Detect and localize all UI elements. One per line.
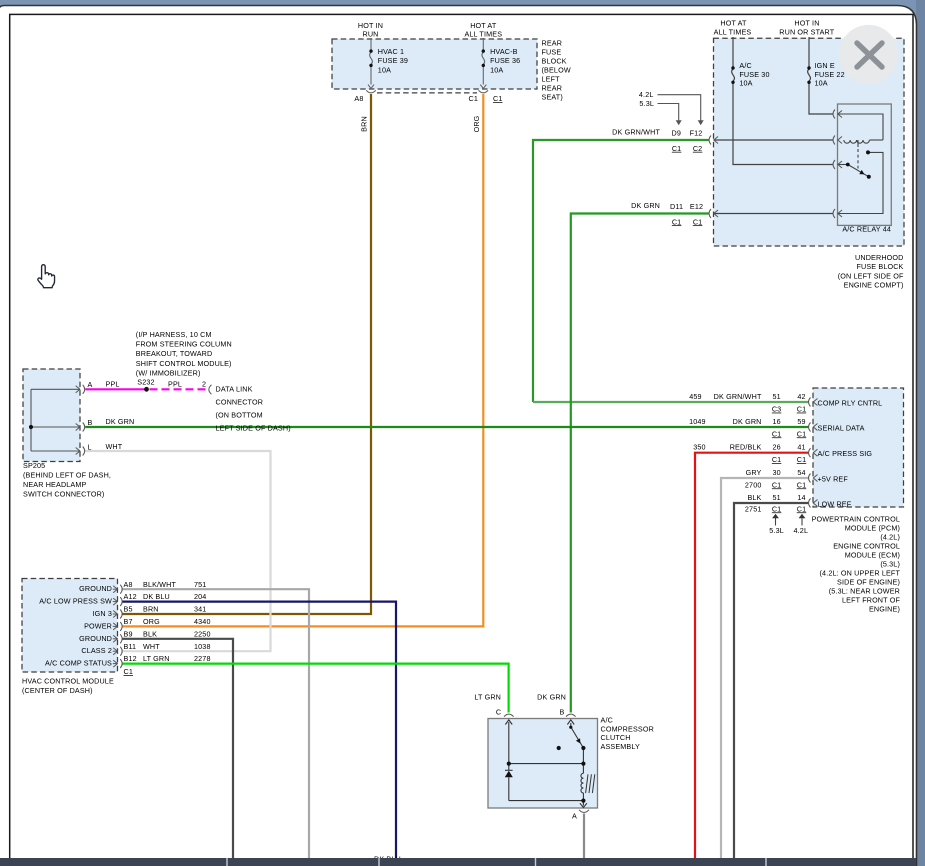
svg-text:HVAC CONTROL MODULE: HVAC CONTROL MODULE [22, 677, 114, 686]
svg-text:D11: D11 [670, 202, 683, 211]
svg-text:F12: F12 [690, 128, 703, 137]
svg-text:PPL: PPL [106, 380, 120, 389]
svg-text:54: 54 [797, 468, 805, 477]
svg-text:FUSE 22: FUSE 22 [815, 70, 845, 79]
svg-text:A8: A8 [124, 580, 133, 589]
svg-text:C1: C1 [772, 455, 782, 464]
svg-text:BRN: BRN [143, 605, 159, 614]
svg-text:30: 30 [772, 468, 780, 477]
svg-text:DK GRN: DK GRN [733, 417, 762, 426]
svg-text:E12: E12 [690, 202, 703, 211]
svg-text:C1: C1 [772, 429, 782, 438]
svg-text:IGN 3: IGN 3 [92, 609, 112, 618]
svg-text:(4.2L: ON UPPER LEFT: (4.2L: ON UPPER LEFT [820, 569, 901, 578]
svg-text:DK BLU: DK BLU [143, 592, 170, 601]
svg-text:2700: 2700 [745, 480, 762, 489]
svg-text:(W/ IMMOBILIZER): (W/ IMMOBILIZER) [136, 368, 201, 377]
svg-text:L: L [88, 443, 92, 452]
svg-text:C1: C1 [797, 480, 807, 489]
svg-text:REAR: REAR [542, 38, 563, 47]
svg-text:IGN E: IGN E [815, 61, 835, 70]
svg-text:A/C RELAY 44: A/C RELAY 44 [842, 225, 891, 234]
svg-text:POWER: POWER [84, 621, 112, 630]
svg-text:REAR: REAR [542, 83, 563, 92]
svg-text:C2: C2 [693, 144, 703, 153]
svg-text:LEFT: LEFT [542, 74, 561, 83]
svg-text:DK GRN: DK GRN [106, 417, 135, 426]
svg-text:NEAR HEADLAMP: NEAR HEADLAMP [23, 480, 87, 489]
svg-text:DK GRN: DK GRN [537, 693, 566, 702]
svg-text:ENGINE COMPT): ENGINE COMPT) [844, 281, 904, 290]
svg-text:A8: A8 [354, 94, 363, 103]
svg-text:C1: C1 [493, 94, 503, 103]
svg-text:FUSE 36: FUSE 36 [490, 56, 520, 65]
svg-text:2250: 2250 [194, 629, 211, 638]
svg-text:SHIFT CONTROL MODULE): SHIFT CONTROL MODULE) [136, 359, 232, 368]
svg-text:51: 51 [772, 493, 780, 502]
svg-text:(ON LEFT SIDE OF: (ON LEFT SIDE OF [838, 271, 904, 280]
svg-text:C1: C1 [772, 480, 782, 489]
svg-text:SIDE OF ENGINE): SIDE OF ENGINE) [837, 578, 900, 587]
svg-text:BREAKOUT, TOWARD: BREAKOUT, TOWARD [136, 349, 213, 358]
svg-text:26: 26 [772, 443, 780, 452]
svg-text:A/C PRESS SIG: A/C PRESS SIG [818, 449, 873, 458]
svg-text:DK GRN/WHT: DK GRN/WHT [612, 128, 660, 137]
svg-text:DK GRN/WHT: DK GRN/WHT [714, 392, 762, 401]
svg-text:DK GRN: DK GRN [631, 201, 660, 210]
svg-text:B12: B12 [124, 654, 137, 663]
svg-text:CONNECTOR: CONNECTOR [216, 398, 264, 407]
svg-text:(5.3L): (5.3L) [880, 560, 900, 569]
svg-text:10A: 10A [815, 79, 828, 88]
svg-text:C1: C1 [797, 455, 807, 464]
svg-text:LEFT SIDE OF DASH): LEFT SIDE OF DASH) [216, 424, 291, 433]
svg-text:FUSE: FUSE [542, 47, 562, 56]
svg-text:LT GRN: LT GRN [474, 693, 501, 702]
svg-text:(BELOW: (BELOW [542, 65, 571, 74]
svg-text:5.3L: 5.3L [639, 99, 654, 108]
svg-text:PPL: PPL [168, 380, 182, 389]
svg-text:BRN: BRN [360, 116, 369, 132]
svg-text:10A: 10A [490, 65, 503, 74]
svg-text:59: 59 [797, 417, 805, 426]
svg-text:CLASS 2: CLASS 2 [81, 646, 112, 655]
svg-text:16: 16 [772, 417, 780, 426]
svg-text:DATA LINK: DATA LINK [216, 385, 253, 394]
svg-text:BLK: BLK [747, 493, 761, 502]
svg-text:RED/BLK: RED/BLK [730, 443, 762, 452]
svg-text:204: 204 [194, 592, 206, 601]
svg-text:RUN: RUN [362, 30, 378, 39]
svg-text:+5V REF: +5V REF [818, 474, 849, 483]
svg-text:459: 459 [689, 392, 701, 401]
svg-text:A/C LOW PRESS SW: A/C LOW PRESS SW [39, 597, 112, 606]
svg-text:HOT AT: HOT AT [470, 21, 497, 30]
svg-text:HVAC-B: HVAC-B [490, 47, 518, 56]
svg-text:A/C: A/C [601, 716, 613, 725]
svg-text:C1: C1 [797, 504, 807, 513]
svg-text:C: C [496, 708, 501, 717]
svg-text:14: 14 [797, 493, 805, 502]
svg-text:WHT: WHT [143, 642, 160, 651]
svg-text:ENGINE CONTROL: ENGINE CONTROL [833, 541, 900, 550]
svg-text:ENGINE): ENGINE) [869, 605, 900, 614]
svg-text:LT GRN: LT GRN [143, 654, 170, 663]
svg-text:C1: C1 [772, 504, 782, 513]
svg-text:ORG: ORG [143, 617, 160, 626]
svg-text:C3: C3 [772, 405, 782, 414]
svg-text:HVAC 1: HVAC 1 [378, 47, 404, 56]
svg-text:MODULE (ECM): MODULE (ECM) [845, 551, 900, 560]
svg-text:HOT IN: HOT IN [794, 18, 819, 27]
svg-text:(4.2L): (4.2L) [880, 532, 900, 541]
svg-text:GROUND: GROUND [79, 634, 112, 643]
svg-text:1038: 1038 [194, 642, 211, 651]
svg-text:ALL TIMES: ALL TIMES [714, 28, 752, 37]
svg-text:C1: C1 [672, 144, 682, 153]
svg-text:LOW REF: LOW REF [818, 499, 852, 508]
svg-text:CLUTCH: CLUTCH [601, 733, 631, 742]
svg-text:D9: D9 [672, 128, 682, 137]
svg-text:(I/P HARNESS, 10 CM: (I/P HARNESS, 10 CM [136, 330, 212, 339]
svg-text:A/C COMP STATUS: A/C COMP STATUS [45, 659, 112, 668]
svg-text:10A: 10A [378, 65, 391, 74]
svg-text:751: 751 [194, 580, 206, 589]
svg-text:2751: 2751 [745, 504, 762, 513]
svg-text:4340: 4340 [194, 617, 211, 626]
svg-text:C1: C1 [693, 217, 703, 226]
svg-text:GRY: GRY [746, 468, 762, 477]
svg-text:(BEHIND LEFT OF DASH,: (BEHIND LEFT OF DASH, [23, 471, 111, 480]
svg-text:C1: C1 [124, 667, 134, 676]
svg-text:GROUND: GROUND [79, 584, 112, 593]
svg-text:4.2L: 4.2L [794, 526, 809, 535]
svg-text:B7: B7 [124, 617, 133, 626]
svg-text:BLK/WHT: BLK/WHT [143, 580, 176, 589]
svg-text:(5.3L: NEAR LOWER: (5.3L: NEAR LOWER [829, 587, 900, 596]
svg-text:MODULE (PCM): MODULE (PCM) [845, 523, 900, 532]
svg-text:COMP RLY CNTRL: COMP RLY CNTRL [818, 398, 883, 407]
svg-text:350: 350 [693, 443, 705, 452]
svg-text:B11: B11 [124, 642, 137, 651]
svg-text:41: 41 [797, 443, 805, 452]
svg-text:SP205: SP205 [23, 461, 45, 470]
svg-text:ALL TIMES: ALL TIMES [464, 30, 502, 39]
svg-text:FUSE 30: FUSE 30 [739, 70, 769, 79]
svg-text:C1: C1 [797, 405, 807, 414]
svg-text:B: B [560, 708, 565, 717]
svg-text:UNDERHOOD: UNDERHOOD [855, 253, 903, 262]
svg-text:S232: S232 [137, 377, 154, 386]
svg-text:B5: B5 [124, 605, 133, 614]
svg-text:RUN OR START: RUN OR START [779, 28, 835, 37]
svg-text:BLK: BLK [143, 629, 157, 638]
svg-text:42: 42 [797, 392, 805, 401]
svg-text:341: 341 [194, 605, 206, 614]
svg-text:WHT: WHT [106, 442, 123, 451]
svg-text:10A: 10A [739, 79, 752, 88]
svg-text:FUSE BLOCK: FUSE BLOCK [856, 262, 903, 271]
svg-text:C1: C1 [797, 429, 807, 438]
svg-text:LEFT FRONT OF: LEFT FRONT OF [842, 596, 900, 605]
svg-text:C1: C1 [672, 217, 682, 226]
svg-text:(ON BOTTOM: (ON BOTTOM [216, 411, 263, 420]
svg-text:A: A [88, 380, 93, 389]
svg-text:(CENTER OF DASH): (CENTER OF DASH) [22, 686, 93, 695]
svg-text:SWITCH CONNECTOR): SWITCH CONNECTOR) [23, 490, 104, 499]
svg-text:A: A [572, 812, 577, 821]
svg-text:A/C: A/C [739, 61, 751, 70]
svg-text:FUSE 39: FUSE 39 [378, 56, 408, 65]
svg-text:1049: 1049 [689, 417, 706, 426]
svg-text:4.2L: 4.2L [639, 90, 654, 99]
svg-text:51: 51 [772, 392, 780, 401]
svg-text:FROM STEERING COLUMN: FROM STEERING COLUMN [136, 340, 232, 349]
svg-text:SERIAL DATA: SERIAL DATA [818, 423, 865, 432]
svg-text:HOT AT: HOT AT [720, 18, 747, 27]
svg-text:SEAT): SEAT) [542, 92, 563, 101]
svg-text:C1: C1 [469, 94, 479, 103]
svg-text:5.3L: 5.3L [769, 526, 784, 535]
svg-text:COMPRESSOR: COMPRESSOR [601, 724, 654, 733]
svg-text:B9: B9 [124, 629, 133, 638]
svg-text:HOT IN: HOT IN [358, 21, 383, 30]
svg-text:POWERTRAIN CONTROL: POWERTRAIN CONTROL [812, 514, 900, 523]
svg-text:A12: A12 [124, 592, 137, 601]
svg-text:2278: 2278 [194, 654, 211, 663]
svg-text:B: B [88, 418, 93, 427]
svg-text:2: 2 [202, 380, 206, 389]
svg-text:ASSEMBLY: ASSEMBLY [601, 742, 640, 751]
svg-text:BLOCK: BLOCK [542, 56, 567, 65]
svg-text:ORG: ORG [472, 115, 481, 132]
